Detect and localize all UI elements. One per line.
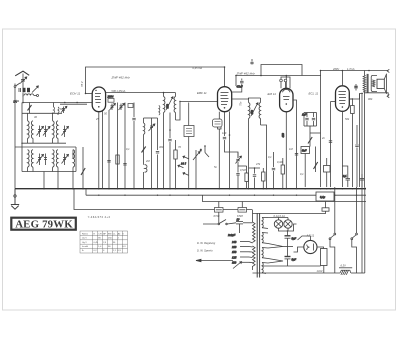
tube EM11 xyxy=(280,88,293,112)
svg-text:LA: LA xyxy=(14,100,17,104)
input capacitor block C-ant xyxy=(19,86,38,93)
tube ECH11 xyxy=(92,87,105,112)
coil L4a xyxy=(53,150,55,168)
junction cap C-e xyxy=(249,167,261,189)
node LA junction xyxy=(14,100,19,104)
antenna series capacitor xyxy=(20,77,27,84)
bus2 junction dots xyxy=(98,195,357,196)
screen bypass cap C-s xyxy=(237,79,244,89)
resistor R-d (box) xyxy=(238,166,248,189)
svg-text:Ia mA: Ia mA xyxy=(82,245,88,248)
svg-text:6,3V: 6,3V xyxy=(341,264,347,268)
svg-text:75n: 75n xyxy=(239,101,243,106)
grid cluster cap Cg1 xyxy=(302,113,309,127)
mains tap 125 xyxy=(232,255,249,259)
coupling coil L-ant xyxy=(23,93,39,97)
anode wire to OT xyxy=(349,94,363,100)
ECH bottom second drop wire xyxy=(102,111,104,189)
svg-text:220: 220 xyxy=(231,245,237,249)
mains switch 2 xyxy=(351,187,358,240)
transformer primary winding lower xyxy=(253,246,256,266)
trimmer C5 xyxy=(44,154,47,166)
mains block cap 2x2uF xyxy=(227,217,253,237)
svg-text:Ua V: Ua V xyxy=(82,238,87,240)
pilot lamp 1 xyxy=(274,220,282,228)
component box Bx xyxy=(324,158,331,187)
IF transformer ZF1 coil B xyxy=(174,93,175,120)
svg-text:EM: EM xyxy=(108,234,111,236)
resistor R-o2 (box) xyxy=(116,155,119,164)
heater fan wires 1 xyxy=(268,244,293,249)
svg-text:Y-462/473 4+3: Y-462/473 4+3 xyxy=(88,215,111,219)
ECL top cap wire xyxy=(341,71,343,86)
trimmer C3 xyxy=(62,126,69,138)
svg-text:110: 110 xyxy=(232,261,237,265)
cap on EM anode xyxy=(295,154,298,156)
HT box component xyxy=(321,249,328,266)
EM11 anode wire xyxy=(293,100,297,189)
coil L3a xyxy=(28,150,30,168)
svg-text:85 V: 85 V xyxy=(80,81,84,87)
cap C-k xyxy=(156,118,159,189)
speaker bottom wire xyxy=(365,93,389,187)
detector components cap xyxy=(236,92,242,166)
table text marks xyxy=(82,233,126,252)
svg-text:0,5M: 0,5M xyxy=(240,168,247,172)
small resistor box on B3 xyxy=(253,202,330,214)
fuse F1 xyxy=(214,202,224,218)
EM11 grid feed wire xyxy=(285,76,287,89)
AVC line L2 wire xyxy=(236,76,321,87)
svg-text:2864: 2864 xyxy=(107,95,114,99)
bottom return wire xyxy=(253,272,341,274)
svg-text:6748: 6748 xyxy=(237,214,243,218)
IF transformer ZF2 coil A xyxy=(249,98,250,189)
ZF1 tuning arrows xyxy=(165,97,173,110)
small coil near IF1 xyxy=(159,106,160,116)
ECL grid wire xyxy=(331,101,336,103)
bus B2 jog wire xyxy=(203,195,367,201)
AZ11 anode wires xyxy=(294,236,311,252)
svg-text:260V: 260V xyxy=(332,67,339,71)
trimmer C4 xyxy=(37,154,44,166)
heater run wire xyxy=(262,265,321,267)
grid stopper junction xyxy=(85,93,87,95)
svg-text:5μF: 5μF xyxy=(292,258,297,262)
svg-text:0,1: 0,1 xyxy=(126,147,130,151)
grid cluster cap Cg2 xyxy=(312,113,315,127)
band bottom wire xyxy=(22,171,76,173)
loudspeaker field coil xyxy=(372,80,375,87)
cathode resistor R-k2 (box) xyxy=(218,112,221,189)
feedback cap C-fb xyxy=(354,84,357,91)
anode wire to IF1 xyxy=(106,92,163,94)
antenna xyxy=(15,71,29,76)
bus B3 wire xyxy=(74,189,252,210)
EM11 cathode wire xyxy=(281,112,287,189)
right column wire A xyxy=(359,94,361,188)
osc coil L-osc xyxy=(144,118,145,145)
det cap C-d xyxy=(236,166,239,189)
svg-text:CH: CH xyxy=(98,234,102,236)
tube ECH11 electrodes xyxy=(95,90,101,108)
AVC bridge wire xyxy=(261,65,302,76)
tube EM11 electrodes xyxy=(283,89,291,104)
mains tap 240 xyxy=(231,240,249,244)
ZF1 lower cap xyxy=(168,113,171,189)
osc column wire 3 xyxy=(124,103,126,189)
anode supply wire top xyxy=(321,71,370,188)
ZF1 top link wire xyxy=(164,92,176,94)
svg-text:AEG 79WK: AEG 79WK xyxy=(15,219,73,231)
svg-text:EBF 11: EBF 11 xyxy=(197,91,207,95)
svg-text:2x2μF: 2x2μF xyxy=(227,233,236,237)
IF transformer ZF2 coil B xyxy=(259,98,260,125)
resistor R-osc (diagonal) xyxy=(142,145,146,155)
ZF2 top link wire xyxy=(232,98,261,99)
tube ECL11 electrodes xyxy=(339,92,347,108)
misc junction dots xyxy=(21,66,370,232)
svg-text:0,45 mA: 0,45 mA xyxy=(193,66,203,70)
svg-text:EM 11: EM 11 xyxy=(268,92,277,96)
grid line wire xyxy=(23,102,92,104)
svg-text:D. W. Regelung: D. W. Regelung xyxy=(197,241,216,245)
ECL cathode wire xyxy=(341,111,343,187)
secondary winding S3 xyxy=(262,248,268,259)
heater vertical wire xyxy=(361,93,363,273)
AEG 79WK nameplate box xyxy=(11,218,76,231)
cap box 5nF xyxy=(301,147,310,188)
wave trap coil xyxy=(54,103,60,116)
loudspeaker voice coil box xyxy=(377,79,384,88)
trimmer C1 xyxy=(37,126,44,138)
wire grid entry xyxy=(86,92,93,94)
bus B2 left riser wire xyxy=(85,189,87,196)
svg-text:ECL 11: ECL 11 xyxy=(309,92,319,96)
left drop wires xyxy=(28,147,84,189)
primary tap wires xyxy=(249,210,253,271)
svg-text:0,1: 0,1 xyxy=(300,172,304,176)
coil L1 leads wire xyxy=(28,113,34,143)
secondary winding S2 xyxy=(262,233,268,244)
cap C-o4 xyxy=(107,161,110,163)
band mid wire xyxy=(22,142,66,144)
ZF2 secondary wire xyxy=(261,125,267,189)
IF transformer ZF1 coil A xyxy=(164,93,165,189)
ground bus B2 xyxy=(86,194,366,196)
padding cap box xyxy=(128,104,133,108)
svg-text:1nF: 1nF xyxy=(302,113,307,117)
cathode resistor R-k3 (box) xyxy=(349,99,354,187)
ECL decoupling link wire xyxy=(342,166,347,174)
tone cap C-t xyxy=(355,125,358,187)
svg-text:2n: 2n xyxy=(321,136,325,140)
volume pot arrow xyxy=(193,150,200,189)
electrolytic cap E1 xyxy=(285,231,297,257)
top IF link wire L1 xyxy=(86,67,225,93)
svg-text:5μF: 5μF xyxy=(292,237,297,241)
svg-text:150: 150 xyxy=(232,250,237,254)
right corner wire xyxy=(364,187,366,273)
band switch contact S1 xyxy=(178,103,189,189)
svg-text:Ug V: Ug V xyxy=(82,242,87,244)
padder trimmer Cp1 xyxy=(110,103,116,110)
coil L5 xyxy=(73,150,75,168)
band mid wire 2 xyxy=(15,146,76,148)
resistor R2 (diagonal) xyxy=(81,160,85,178)
ground bus B1 xyxy=(15,188,366,190)
lamp feed wires xyxy=(268,218,297,232)
af cap C-f xyxy=(272,152,275,189)
svg-text:ECH 11: ECH 11 xyxy=(70,92,81,96)
svg-text:14 J: 14 J xyxy=(181,162,187,166)
mains tap 110 xyxy=(232,261,249,265)
volume control wire xyxy=(225,145,239,158)
left outer wire xyxy=(14,84,16,189)
tube EBF11 xyxy=(218,87,232,112)
coil L2 leads wire xyxy=(53,113,59,143)
resistor R-if (box) xyxy=(174,140,177,189)
svg-text:D. W. Sperrkr.: D. W. Sperrkr. xyxy=(197,248,214,252)
svg-text:0,1μ: 0,1μ xyxy=(320,195,326,199)
voltage selector arrow xyxy=(233,262,242,269)
svg-text:47k: 47k xyxy=(256,162,261,166)
svg-text:Röhre: Röhre xyxy=(82,233,89,236)
pilot lamp 2 xyxy=(284,220,292,228)
power switch feed wire xyxy=(203,212,219,224)
ZF1 secondary lead wire xyxy=(176,102,218,121)
coupling cap C-c2 xyxy=(223,112,226,145)
svg-text:1,7mA: 1,7mA xyxy=(347,67,355,71)
band column wire xyxy=(21,103,23,172)
grid coupling cap on riser xyxy=(329,141,332,143)
coil L1b xyxy=(31,121,33,139)
band frame top wire xyxy=(22,112,62,114)
antenna feed wire to grid xyxy=(22,96,24,103)
speaker field wire top xyxy=(369,70,388,72)
antenna lead wire xyxy=(22,74,24,89)
ECL grid column wire xyxy=(330,102,332,188)
padder trimmer Cp2 xyxy=(119,103,125,110)
mixer grid cap xyxy=(132,103,135,189)
resistor R-in (diagonal) xyxy=(28,103,32,114)
osc column wire xyxy=(108,110,110,189)
wave trap trimmer xyxy=(61,106,67,113)
junction dots on grid wire xyxy=(64,102,78,103)
barretter resistor (zigzag) xyxy=(339,268,352,275)
svg-text:450: 450 xyxy=(281,133,285,138)
loudspeaker magnet bracket xyxy=(371,75,377,91)
trimmer C2 xyxy=(43,126,50,138)
small cap on AVC bridge xyxy=(250,59,253,65)
coil L2a xyxy=(53,121,55,139)
bandfilter box below EBF xyxy=(213,119,223,127)
switch contact S2 xyxy=(199,145,209,157)
output transformer core bar xyxy=(367,74,369,93)
rectifier tube AZ11 xyxy=(304,240,317,253)
svg-text:240: 240 xyxy=(231,240,237,244)
svg-text:125: 125 xyxy=(232,255,237,259)
AZ11 output wire xyxy=(317,247,324,249)
cathode wire drop xyxy=(98,112,100,189)
HT wire down xyxy=(323,266,325,274)
mains switch 1 xyxy=(329,187,336,240)
power on-off switch xyxy=(218,220,236,225)
decoupling caps pair xyxy=(343,174,350,187)
svg-text:ZWF 462 kHz: ZWF 462 kHz xyxy=(111,76,131,80)
ground symbol xyxy=(11,189,19,210)
osc column wire 2 xyxy=(117,103,119,189)
coil L2b xyxy=(56,121,58,139)
svg-text:904: 904 xyxy=(368,97,373,101)
EM11 target anode hooks xyxy=(280,77,290,88)
fuse F2 xyxy=(237,202,247,218)
choke Dr xyxy=(144,155,148,189)
input switch contact xyxy=(14,83,20,87)
AZ11 internals xyxy=(307,244,314,251)
trimmer C6 xyxy=(62,154,69,166)
ZF2 tuning arrows xyxy=(250,103,258,116)
resistor R-g3 (diagonal) xyxy=(308,133,312,147)
diode load wire xyxy=(232,86,242,92)
transformer primary winding xyxy=(253,222,256,242)
svg-text:0,1: 0,1 xyxy=(343,174,347,178)
svg-text:550: 550 xyxy=(165,104,169,109)
mains tap 220 xyxy=(231,245,249,249)
block cap box 01 xyxy=(316,192,334,201)
mains cord arrow xyxy=(196,259,233,261)
transformer core xyxy=(257,213,259,278)
screen capacitor box xyxy=(107,95,115,103)
mains switch wires down xyxy=(330,240,357,273)
bus junction dots xyxy=(43,188,365,190)
coil L3b xyxy=(31,150,33,168)
heater fan wires 2 xyxy=(268,259,283,264)
cap C-o3 xyxy=(123,164,126,166)
tube EBF11 electrodes xyxy=(221,92,229,108)
svg-text:5nF: 5nF xyxy=(302,148,307,152)
loudspeaker cone xyxy=(384,69,389,97)
coil L1a xyxy=(28,121,30,139)
bottom return wire right xyxy=(351,272,365,274)
tube data table xyxy=(80,231,128,253)
grid cluster wires xyxy=(304,113,321,134)
ZF box below IF2 xyxy=(184,126,194,137)
svg-text:50k: 50k xyxy=(345,117,350,121)
secondary winding S1 xyxy=(262,218,268,229)
wire stub xyxy=(60,103,87,105)
output transformer primary coil xyxy=(363,71,366,93)
resistor R-x (diagonal) xyxy=(314,147,318,173)
tube ECL11 xyxy=(336,86,350,112)
svg-text:0,1: 0,1 xyxy=(268,155,272,159)
mains tap 150 xyxy=(232,250,249,254)
resistor R-g (box) xyxy=(281,158,284,189)
resistor R-e (box) xyxy=(262,168,265,189)
svg-text:450: 450 xyxy=(250,110,254,115)
coil L4b xyxy=(56,150,58,168)
diode return wire xyxy=(229,112,231,189)
secondary winding S4 xyxy=(262,263,268,274)
decoupling cap 2 xyxy=(360,174,364,187)
svg-text:ZWF 462 kHz: ZWF 462 kHz xyxy=(236,71,256,75)
osc trimmer arrows xyxy=(144,118,158,189)
electrolytic cap E2 xyxy=(285,257,297,267)
